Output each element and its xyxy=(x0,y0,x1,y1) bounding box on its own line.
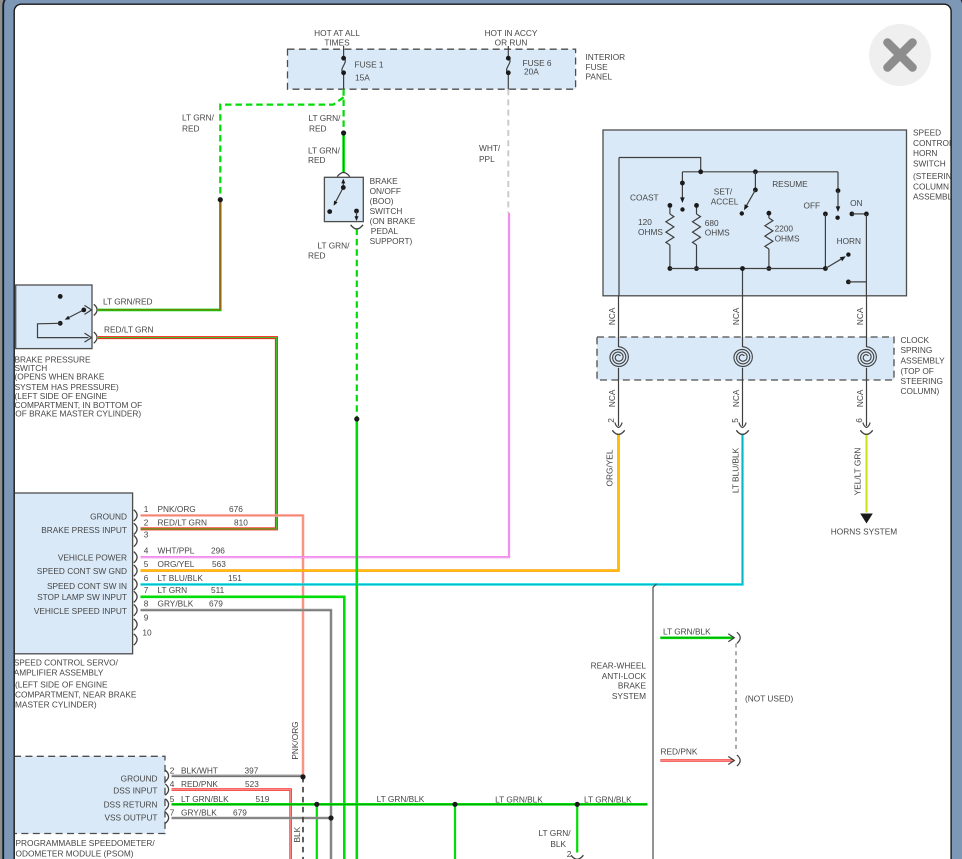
svg-text:COLUMN): COLUMN) xyxy=(901,386,940,396)
svg-text:COLUMN: COLUMN xyxy=(913,181,949,191)
svg-text:SWITCH: SWITCH xyxy=(370,206,403,216)
svg-text:676: 676 xyxy=(229,504,243,514)
svg-text:ACCEL: ACCEL xyxy=(711,197,739,207)
svg-text:ASSEMBLY: ASSEMBLY xyxy=(901,356,946,366)
svg-text:RED/LT GRN: RED/LT GRN xyxy=(158,517,207,527)
svg-text:VEHICLE SPEED INPUT: VEHICLE SPEED INPUT xyxy=(34,606,127,616)
svg-text:BRAKE: BRAKE xyxy=(370,176,399,186)
svg-text:BLK: BLK xyxy=(550,839,566,849)
svg-text:RED: RED xyxy=(182,124,200,134)
svg-text:BRAKE: BRAKE xyxy=(618,681,647,691)
svg-text:BLK/WHT: BLK/WHT xyxy=(181,766,218,776)
svg-text:296: 296 xyxy=(211,546,225,556)
svg-text:RED: RED xyxy=(308,251,326,261)
svg-text:680: 680 xyxy=(705,218,719,228)
svg-text:SWITCH: SWITCH xyxy=(913,158,946,168)
svg-text:2: 2 xyxy=(144,517,149,527)
svg-text:VSS OUTPUT: VSS OUTPUT xyxy=(104,813,157,823)
svg-text:RED/PNK: RED/PNK xyxy=(181,779,218,789)
svg-text:STEERING: STEERING xyxy=(901,376,943,386)
svg-text:REAR-WHEEL: REAR-WHEEL xyxy=(591,661,647,671)
svg-text:2200: 2200 xyxy=(775,224,794,234)
svg-text:20A: 20A xyxy=(524,67,539,77)
svg-text:COAST: COAST xyxy=(630,193,659,203)
svg-text:RED/PNK: RED/PNK xyxy=(661,747,698,757)
svg-text:AMPLIFIER ASSEMBLY: AMPLIFIER ASSEMBLY xyxy=(14,668,104,678)
svg-text:STOP LAMP SW INPUT: STOP LAMP SW INPUT xyxy=(37,592,127,602)
svg-text:YEL/LT GRN: YEL/LT GRN xyxy=(853,448,863,496)
svg-text:FUSE: FUSE xyxy=(586,62,609,72)
svg-text:NCA: NCA xyxy=(607,307,617,325)
svg-text:LT GRN/RED: LT GRN/RED xyxy=(103,297,152,307)
svg-text:LT GRN/: LT GRN/ xyxy=(539,828,572,838)
svg-text:PEDAL: PEDAL xyxy=(371,226,399,236)
svg-text:WHT/: WHT/ xyxy=(479,143,501,153)
svg-text:PPL: PPL xyxy=(479,154,495,164)
svg-text:5: 5 xyxy=(170,794,175,804)
svg-text:SPRING: SPRING xyxy=(901,345,933,355)
svg-text:NCA: NCA xyxy=(855,307,865,325)
svg-text:CLOCK: CLOCK xyxy=(901,335,930,345)
svg-text:6: 6 xyxy=(144,573,149,583)
svg-text:8: 8 xyxy=(144,599,149,609)
svg-text:HOT IN ACCY: HOT IN ACCY xyxy=(485,28,538,38)
svg-text:INTERIOR: INTERIOR xyxy=(586,52,626,62)
svg-text:DSS RETURN: DSS RETURN xyxy=(104,799,158,809)
svg-text:OR RUN: OR RUN xyxy=(495,38,528,48)
svg-text:HORNS SYSTEM: HORNS SYSTEM xyxy=(831,527,897,537)
svg-text:NCA: NCA xyxy=(607,389,617,407)
svg-text:ODOMETER MODULE (PSOM): ODOMETER MODULE (PSOM) xyxy=(16,849,134,859)
svg-text:OHMS: OHMS xyxy=(638,227,663,237)
svg-text:ANTI-LOCK: ANTI-LOCK xyxy=(602,671,647,681)
svg-text:PROGRAMMABLE SPEEDOMETER/: PROGRAMMABLE SPEEDOMETER/ xyxy=(16,838,156,848)
svg-text:(NOT USED): (NOT USED) xyxy=(745,694,793,704)
svg-text:HOT AT ALL: HOT AT ALL xyxy=(314,28,360,38)
svg-text:4: 4 xyxy=(144,546,149,556)
svg-text:SPEED CONT SW GND: SPEED CONT SW GND xyxy=(37,566,127,576)
svg-text:2: 2 xyxy=(170,766,175,776)
svg-text:(OPENS WHEN BRAKE: (OPENS WHEN BRAKE xyxy=(15,372,105,382)
svg-text:ON/OFF: ON/OFF xyxy=(370,186,401,196)
svg-text:BLK: BLK xyxy=(292,826,302,842)
svg-text:COMPARTMENT, NEAR BRAKE: COMPARTMENT, NEAR BRAKE xyxy=(15,690,137,700)
svg-text:7: 7 xyxy=(144,585,149,595)
svg-text:LT GRN/: LT GRN/ xyxy=(318,241,351,251)
svg-text:LT GRN/BLK: LT GRN/BLK xyxy=(584,795,632,805)
svg-text:GROUND: GROUND xyxy=(90,512,127,522)
svg-text:5: 5 xyxy=(144,559,149,569)
svg-text:5: 5 xyxy=(730,418,740,423)
svg-text:7: 7 xyxy=(170,807,175,817)
svg-text:511: 511 xyxy=(211,585,225,595)
svg-text:PNK/ORG: PNK/ORG xyxy=(290,721,300,759)
svg-text:679: 679 xyxy=(209,599,223,609)
svg-text:ORG/YEL: ORG/YEL xyxy=(605,449,615,486)
svg-text:WHT/PPL: WHT/PPL xyxy=(158,546,195,556)
svg-text:2: 2 xyxy=(606,418,616,423)
svg-text:563: 563 xyxy=(212,559,226,569)
svg-text:GROUND: GROUND xyxy=(121,774,158,784)
svg-text:PNK/ORG: PNK/ORG xyxy=(158,504,196,514)
svg-text:NCA: NCA xyxy=(731,307,741,325)
svg-text:(TOP OF: (TOP OF xyxy=(901,366,934,376)
svg-text:NCA: NCA xyxy=(855,389,865,407)
svg-text:TIMES: TIMES xyxy=(324,38,350,48)
svg-text:15A: 15A xyxy=(355,73,370,83)
svg-text:OHMS: OHMS xyxy=(775,234,800,244)
svg-text:GRY/BLK: GRY/BLK xyxy=(158,599,194,609)
svg-text:LT GRN/: LT GRN/ xyxy=(309,113,342,123)
svg-text:DSS INPUT: DSS INPUT xyxy=(113,785,157,795)
svg-text:(BOO): (BOO) xyxy=(370,196,394,206)
svg-text:BRAKE PRESS INPUT: BRAKE PRESS INPUT xyxy=(41,525,127,535)
svg-text:151: 151 xyxy=(228,573,242,583)
svg-text:RED: RED xyxy=(308,155,326,165)
svg-text:519: 519 xyxy=(256,794,270,804)
svg-text:523: 523 xyxy=(245,779,259,789)
svg-text:6: 6 xyxy=(854,418,864,423)
svg-text:ORG/YEL: ORG/YEL xyxy=(158,559,195,569)
svg-text:RED/LT GRN: RED/LT GRN xyxy=(104,325,153,335)
svg-text:HORN: HORN xyxy=(913,148,937,158)
svg-text:LT GRN/: LT GRN/ xyxy=(182,113,215,123)
svg-text:810: 810 xyxy=(234,517,248,527)
svg-text:CONTROL: CONTROL xyxy=(913,138,954,148)
svg-text:SUPPORT): SUPPORT) xyxy=(370,236,413,246)
svg-text:SET/: SET/ xyxy=(714,187,733,197)
svg-text:9: 9 xyxy=(144,613,149,623)
svg-text:ON: ON xyxy=(850,198,862,208)
svg-text:397: 397 xyxy=(245,766,259,776)
svg-text:(ON BRAKE: (ON BRAKE xyxy=(370,216,416,226)
svg-text:LT GRN/: LT GRN/ xyxy=(308,146,341,156)
svg-text:2: 2 xyxy=(567,849,572,859)
svg-text:LT GRN/BLK: LT GRN/BLK xyxy=(495,795,543,805)
svg-text:120: 120 xyxy=(638,217,652,227)
svg-text:SPEED CONT SW IN: SPEED CONT SW IN xyxy=(47,581,127,591)
svg-text:LT BLU/BLK: LT BLU/BLK xyxy=(158,573,204,583)
svg-text:1: 1 xyxy=(144,504,149,514)
svg-text:LT GRN/BLK: LT GRN/BLK xyxy=(377,794,425,804)
svg-text:VEHICLE POWER: VEHICLE POWER xyxy=(58,553,127,563)
svg-text:SPEED CONTROL SERVO/: SPEED CONTROL SERVO/ xyxy=(14,657,119,667)
svg-text:LT GRN/BLK: LT GRN/BLK xyxy=(181,794,229,804)
svg-text:HORN: HORN xyxy=(837,236,861,246)
svg-text:10: 10 xyxy=(142,628,152,638)
svg-text:(LEFT SIDE OF ENGINE: (LEFT SIDE OF ENGINE xyxy=(15,680,108,690)
svg-text:GRY/BLK: GRY/BLK xyxy=(181,807,217,817)
svg-text:3: 3 xyxy=(144,529,149,539)
svg-text:OF BRAKE MASTER CYLINDER): OF BRAKE MASTER CYLINDER) xyxy=(15,409,141,419)
svg-text:OHMS: OHMS xyxy=(705,228,730,238)
svg-text:679: 679 xyxy=(233,807,247,817)
svg-text:RED: RED xyxy=(309,124,327,134)
svg-text:LT GRN: LT GRN xyxy=(158,585,188,595)
svg-text:LT BLU/BLK: LT BLU/BLK xyxy=(731,447,741,493)
svg-text:SYSTEM: SYSTEM xyxy=(612,691,646,701)
svg-text:4: 4 xyxy=(170,779,175,789)
svg-text:SPEED: SPEED xyxy=(913,128,941,138)
svg-text:LT GRN/BLK: LT GRN/BLK xyxy=(663,627,711,637)
svg-text:PANEL: PANEL xyxy=(586,71,613,81)
svg-text:MASTER CYLINDER): MASTER CYLINDER) xyxy=(15,700,97,710)
svg-text:RESUME: RESUME xyxy=(772,179,808,189)
svg-text:OFF: OFF xyxy=(804,201,821,211)
svg-text:FUSE 1: FUSE 1 xyxy=(355,60,384,70)
svg-text:NCA: NCA xyxy=(731,389,741,407)
